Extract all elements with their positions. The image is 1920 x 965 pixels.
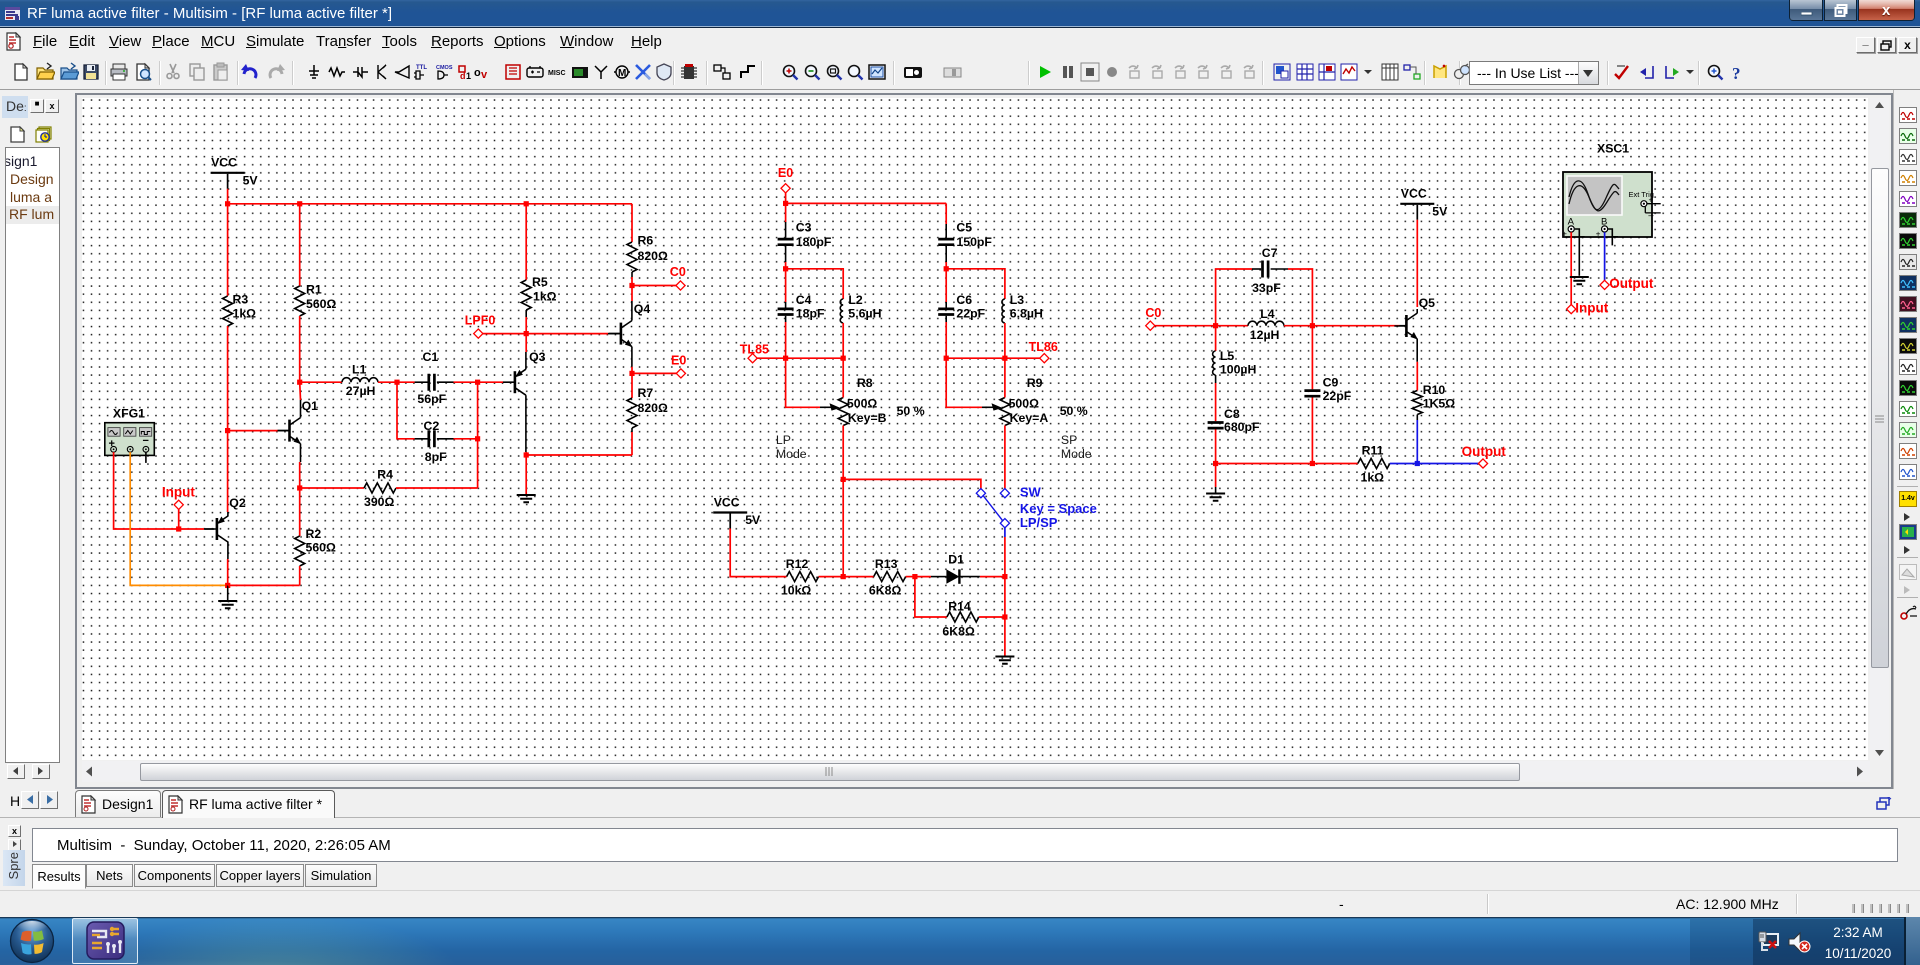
svg-text:1: 1 xyxy=(466,71,471,81)
multisim taskbar button xyxy=(72,918,138,964)
wire Q1 emitter to R2 xyxy=(299,462,301,536)
ground (right filter) xyxy=(1206,494,1225,501)
svg-text:v: v xyxy=(481,69,488,81)
node TL86/C6 junction xyxy=(944,356,949,361)
node TL85/C4 junction xyxy=(783,356,788,361)
svg-text:680pF: 680pF xyxy=(1224,420,1260,434)
wire Output net (blue) xyxy=(1417,463,1478,465)
svg-text:5V: 5V xyxy=(243,173,259,187)
svg-text:Q3: Q3 xyxy=(529,350,546,364)
svg-text:1K5Ω: 1K5Ω xyxy=(1423,396,1456,410)
ground (left) xyxy=(218,601,237,608)
node R14 junction xyxy=(1002,614,1007,619)
svg-text:6.8µH: 6.8µH xyxy=(1010,306,1043,320)
node Q3/R7-return junction xyxy=(524,452,529,457)
capacitor C2 8pF xyxy=(397,382,415,439)
wire bottom return line xyxy=(1216,463,1313,465)
resistor R3 1k xyxy=(227,204,229,296)
resistor R7 820 xyxy=(631,373,633,398)
capacitor C3 180pF xyxy=(785,203,787,222)
wire R13/D1 node down to R14 xyxy=(915,577,947,617)
instruments bar xyxy=(1893,90,1920,789)
wire scope B- stub xyxy=(1608,229,1613,245)
wire to SW pole xyxy=(843,479,981,488)
transistor Q3 xyxy=(503,369,526,395)
svg-text:500Ω: 500Ω xyxy=(847,397,878,411)
node L4/C7/C9 junction xyxy=(1310,323,1315,328)
svg-text:180pF: 180pF xyxy=(796,235,832,249)
svg-text:R13: R13 xyxy=(875,557,898,571)
svg-text:C5: C5 xyxy=(956,221,972,235)
vertical scrollbar xyxy=(1870,98,1889,760)
wire XFG1 - stub xyxy=(145,452,147,463)
inductor L5 100uH xyxy=(1215,326,1217,351)
wire TL85 line xyxy=(757,357,843,359)
child window xyxy=(75,93,1893,789)
wire L4 to Q5 base xyxy=(1312,325,1399,327)
node Input/Q2-base junction xyxy=(176,526,181,531)
wire scope channel B to Output (blue) xyxy=(1604,232,1606,280)
svg-text:−: − xyxy=(143,435,149,447)
wire R9 wiper connection xyxy=(946,358,982,407)
svg-text:XFG1: XFG1 xyxy=(113,407,145,421)
wire Q2 collector pin xyxy=(227,542,229,560)
svg-text:VCC: VCC xyxy=(1401,187,1427,201)
svg-text:?: ? xyxy=(1732,64,1741,82)
svg-text:R6: R6 xyxy=(638,234,654,248)
resistor R5 1k xyxy=(525,204,527,280)
node rail/R3 junction xyxy=(225,201,230,206)
spreadsheet view xyxy=(0,818,1920,890)
wire Q3 emitter up xyxy=(525,334,527,352)
node R12/R13 junction xyxy=(841,574,846,579)
capacitor C8 680pF xyxy=(1208,423,1224,429)
transistor Q1 xyxy=(278,418,302,445)
wire SW contact-B stub (blue) xyxy=(1004,528,1006,537)
wire C1-right to R4 vertical xyxy=(477,382,479,488)
svg-text:50 %: 50 % xyxy=(897,404,925,418)
svg-text:Output: Output xyxy=(1462,444,1507,459)
node C0/L4/L5/C7 junction xyxy=(1213,323,1218,328)
resistor R10 1K5 xyxy=(1412,391,1422,415)
svg-text:L2: L2 xyxy=(848,293,863,307)
wire TL85 to R8 top xyxy=(842,358,844,397)
wire R10 to Output (blue) xyxy=(1416,420,1418,464)
svg-text:C0: C0 xyxy=(1145,306,1161,320)
svg-text:Q2: Q2 xyxy=(229,496,246,510)
svg-text:Input: Input xyxy=(1575,301,1608,316)
svg-text:Q1: Q1 xyxy=(302,399,319,413)
wire VCC rail net xyxy=(228,203,632,205)
wire scope A- to ground xyxy=(1575,229,1580,276)
potentiometer R8 500 Key=B xyxy=(820,406,832,408)
node rail/R5 junction xyxy=(524,201,529,206)
svg-text:XSC1: XSC1 xyxy=(1597,142,1629,156)
svg-text:SP: SP xyxy=(1061,433,1077,447)
svg-text:R3: R3 xyxy=(233,293,249,307)
svg-text:C6: C6 xyxy=(956,293,972,307)
node D1 cathode junction xyxy=(1002,574,1007,579)
svg-text:560Ω: 560Ω xyxy=(306,297,337,311)
svg-text:TTL: TTL xyxy=(416,65,427,71)
taskbar xyxy=(0,917,1920,965)
wire R8 wiper connection xyxy=(786,358,820,407)
svg-text:TL85: TL85 xyxy=(740,343,769,357)
svg-text:Key=B: Key=B xyxy=(848,411,887,425)
wire Q1 base net xyxy=(228,430,278,432)
wire Q4 collector up xyxy=(631,286,633,302)
svg-text:1kΩ: 1kΩ xyxy=(233,307,257,321)
svg-text:5V: 5V xyxy=(1432,204,1448,218)
svg-text:820Ω: 820Ω xyxy=(638,249,669,263)
node E0 junction xyxy=(629,371,634,376)
node net Input (scope) xyxy=(1567,305,1576,314)
svg-text:Mode: Mode xyxy=(1061,447,1092,461)
svg-text:+: + xyxy=(1562,230,1567,239)
horizontal scrollbar xyxy=(82,761,1870,782)
node C2/R4 junction xyxy=(475,436,480,441)
svg-text:C8: C8 xyxy=(1224,407,1240,421)
resistor R13 6K8 xyxy=(843,576,874,578)
tab row xyxy=(0,789,1920,818)
svg-text:Q5: Q5 xyxy=(1419,296,1436,310)
capacitor C7 33pF xyxy=(1216,269,1252,326)
wire VCC3 to Q5 collector xyxy=(1416,220,1418,307)
svg-text:150pF: 150pF xyxy=(956,235,992,249)
transistor Q2 xyxy=(205,516,228,542)
svg-text:R12: R12 xyxy=(786,557,809,571)
wire Q1 collector pin xyxy=(300,400,302,418)
wire to ground (right) xyxy=(1215,464,1217,488)
svg-text:10kΩ: 10kΩ xyxy=(781,583,812,597)
node R13/D1/R14 junction xyxy=(912,574,917,579)
resistor R2 560 xyxy=(295,536,305,566)
svg-text:50 %: 50 % xyxy=(1060,404,1088,418)
svg-text:18pF: 18pF xyxy=(796,306,825,320)
resistor R12 10k xyxy=(787,572,819,582)
svg-text:Mode: Mode xyxy=(776,447,807,461)
ground (switch column) xyxy=(995,657,1014,664)
svg-text:100µH: 100µH xyxy=(1220,363,1257,377)
svg-text:5V: 5V xyxy=(745,513,761,527)
tray icons xyxy=(1757,931,1781,953)
wire Q1 emitter pin xyxy=(300,444,302,462)
resistor R11 1k xyxy=(1312,463,1357,465)
wire E0 connector stub xyxy=(785,193,787,204)
svg-text:Key=A: Key=A xyxy=(1010,411,1049,425)
node C0 junction xyxy=(629,283,634,288)
svg-text:C1: C1 xyxy=(423,350,439,364)
svg-text:C3: C3 xyxy=(796,221,812,235)
status bar xyxy=(0,890,1920,917)
svg-text:MISC: MISC xyxy=(548,70,566,77)
wire Q4 emitter pin xyxy=(631,347,633,367)
node Q1-emitter/R4 junction xyxy=(297,485,302,490)
node ground rail junction xyxy=(225,583,230,588)
svg-text:6K8Ω: 6K8Ω xyxy=(869,583,902,597)
node TL85/L2/R8 junction xyxy=(841,356,846,361)
transistor Q4 xyxy=(609,321,633,348)
svg-text:CMOS: CMOS xyxy=(436,65,453,71)
svg-text:R5: R5 xyxy=(532,275,548,289)
node R3/Q1-base junction xyxy=(225,428,230,433)
node Output junction (blue) xyxy=(1415,461,1420,466)
svg-text:R7: R7 xyxy=(638,386,654,400)
node L1/C2 branch junction xyxy=(394,380,399,385)
node C3/C4/L2 junction xyxy=(783,266,788,271)
capacitor C5 150pF xyxy=(945,203,947,224)
svg-text:27µH: 27µH xyxy=(346,384,376,398)
svg-text:R2: R2 xyxy=(306,527,322,541)
svg-text:12µH: 12µH xyxy=(1250,328,1280,342)
node TL86/L3/R9 junction xyxy=(1002,356,1007,361)
svg-text:R4: R4 xyxy=(377,468,393,482)
wire R3 to Q2 emitter xyxy=(227,431,229,512)
svg-text:LPF0: LPF0 xyxy=(465,314,496,328)
node C5/C6/L3 junction xyxy=(944,266,949,271)
power VCC symbol (right, 5V) xyxy=(1400,203,1434,205)
svg-text:R14: R14 xyxy=(948,600,971,614)
svg-text:L5: L5 xyxy=(1220,349,1235,363)
svg-text:560Ω: 560Ω xyxy=(306,541,337,555)
svg-text:C0: C0 xyxy=(670,265,686,279)
svg-text:E0: E0 xyxy=(671,354,686,368)
svg-text:M: M xyxy=(618,68,626,79)
node net Output (scope) xyxy=(1600,280,1609,289)
wire VCC2 to R12 xyxy=(730,529,786,577)
node C8/ground junction xyxy=(1213,461,1218,466)
wire R9 bottom to SW contact xyxy=(1004,426,1006,489)
svg-text:LP/SP: LP/SP xyxy=(1020,515,1058,530)
svg-text:TL86: TL86 xyxy=(1029,340,1058,354)
svg-text:LP: LP xyxy=(776,433,791,447)
svg-text:5.6µH: 5.6µH xyxy=(848,306,881,320)
svg-text:VCC: VCC xyxy=(211,156,237,170)
node LPF0/R5/Q3 junction xyxy=(524,331,529,336)
node E0/C3 junction xyxy=(783,201,788,206)
inductor L4 12uH xyxy=(1216,325,1248,327)
inductor L2 5.6uH xyxy=(786,269,844,299)
svg-text:820Ω: 820Ω xyxy=(638,401,669,415)
svg-text:33pF: 33pF xyxy=(1252,281,1281,295)
svg-text:D1: D1 xyxy=(948,553,964,567)
wire C0 into filter xyxy=(1155,325,1216,327)
svg-text:o: o xyxy=(474,67,481,79)
wire E0 stub xyxy=(632,372,676,374)
svg-text:L1: L1 xyxy=(352,363,367,377)
wire Q3 to R7 bottom xyxy=(526,454,632,456)
wire SW to ground column xyxy=(1004,537,1006,656)
svg-text:6K8Ω: 6K8Ω xyxy=(942,624,975,638)
svg-text:390Ω: 390Ω xyxy=(364,495,395,509)
wire TL86 to R9 top xyxy=(1004,358,1006,397)
diode D1 xyxy=(915,576,931,578)
svg-text:1kΩ: 1kΩ xyxy=(533,290,557,304)
svg-text:C9: C9 xyxy=(1323,376,1339,390)
menu bar xyxy=(0,28,1920,55)
svg-text:R8: R8 xyxy=(857,376,873,390)
svg-text:22pF: 22pF xyxy=(1323,389,1352,403)
svg-text:56pF: 56pF xyxy=(417,392,446,406)
wire XFG1 common (orange) to ground rail xyxy=(130,452,228,585)
svg-text:SW: SW xyxy=(1020,485,1042,500)
power VCC symbol (left, 5V) xyxy=(211,172,245,174)
node C9/R11 junction xyxy=(1310,461,1315,466)
svg-text:+: + xyxy=(1596,230,1601,239)
capacitor C6 22pF xyxy=(945,269,947,302)
svg-text:C4: C4 xyxy=(796,293,812,307)
wire Input connector stub xyxy=(178,509,180,529)
wire Q3 collector pin xyxy=(525,395,527,452)
svg-text:Input: Input xyxy=(162,485,195,500)
resistor R6 820 xyxy=(631,204,633,242)
capacitor C1 56pF xyxy=(415,381,429,383)
resistor R1 560 xyxy=(299,204,301,286)
inductor L3 6.8uH xyxy=(946,269,1005,299)
wire VCC stub to rail xyxy=(227,189,229,204)
node R8/SW-pole junction xyxy=(841,477,846,482)
left panel xyxy=(0,90,75,817)
svg-text:L3: L3 xyxy=(1010,293,1025,307)
wire LPF0 net to Q4 base xyxy=(483,333,608,335)
node rail/R1 junction xyxy=(297,201,302,206)
wire R11 to output node (blue) xyxy=(1390,463,1418,465)
svg-text:R9: R9 xyxy=(1027,376,1043,390)
start orb xyxy=(9,918,55,964)
wire Q5 emitter pin xyxy=(1416,339,1418,362)
svg-text:Key = Space: Key = Space xyxy=(1020,501,1097,516)
wire ground rail to R2 xyxy=(228,584,300,586)
svg-text:8pF: 8pF xyxy=(425,450,447,464)
wire scope channel A to Input xyxy=(1570,232,1572,304)
svg-text:E0: E0 xyxy=(778,166,793,180)
power VCC symbol (middle, 5V) xyxy=(713,511,747,513)
toolbar xyxy=(0,55,1920,90)
wire C1 to Q3 base xyxy=(454,381,504,383)
inductor L1 27uH xyxy=(300,381,342,383)
capacitor C9 22pF xyxy=(1311,326,1313,390)
title bar xyxy=(0,0,1920,28)
svg-text:R10: R10 xyxy=(1423,383,1446,397)
svg-text:C2: C2 xyxy=(424,419,440,433)
capacitor C4 18pF xyxy=(785,269,787,302)
svg-text:C7: C7 xyxy=(1262,246,1278,260)
svg-text:1kΩ: 1kΩ xyxy=(1361,470,1385,484)
svg-text:R11: R11 xyxy=(1362,444,1384,458)
ground (Q3) xyxy=(517,495,536,502)
ground (scope) xyxy=(1570,277,1589,284)
node R1/Q1-collector/L1 junction xyxy=(297,380,302,385)
svg-text:Output: Output xyxy=(1609,276,1654,291)
node C1/C2-right junction xyxy=(475,380,480,385)
switch SW SPDT Key=Space xyxy=(976,489,985,498)
potentiometer R9 500 Key=A xyxy=(982,406,994,408)
resistor R4 390 xyxy=(300,487,364,489)
svg-text:Q4: Q4 xyxy=(634,302,651,316)
wire XFG1 + output to Q2 base xyxy=(114,452,204,529)
svg-text:L4: L4 xyxy=(1260,307,1275,321)
svg-text:VCC: VCC xyxy=(714,495,740,509)
svg-text:d: d xyxy=(460,71,466,81)
svg-text:500Ω: 500Ω xyxy=(1009,397,1040,411)
svg-text:22pF: 22pF xyxy=(956,306,985,320)
wire E0 feed line xyxy=(786,202,947,204)
wire TL86 line xyxy=(946,357,1040,359)
transistor Q5 xyxy=(1394,313,1418,340)
svg-text:R1: R1 xyxy=(306,283,322,297)
svg-text:_: _ xyxy=(1648,206,1655,216)
wire ground stub xyxy=(227,585,229,600)
wire R8 bottom to R12 node xyxy=(842,426,844,577)
wire C0 stub xyxy=(632,285,676,287)
